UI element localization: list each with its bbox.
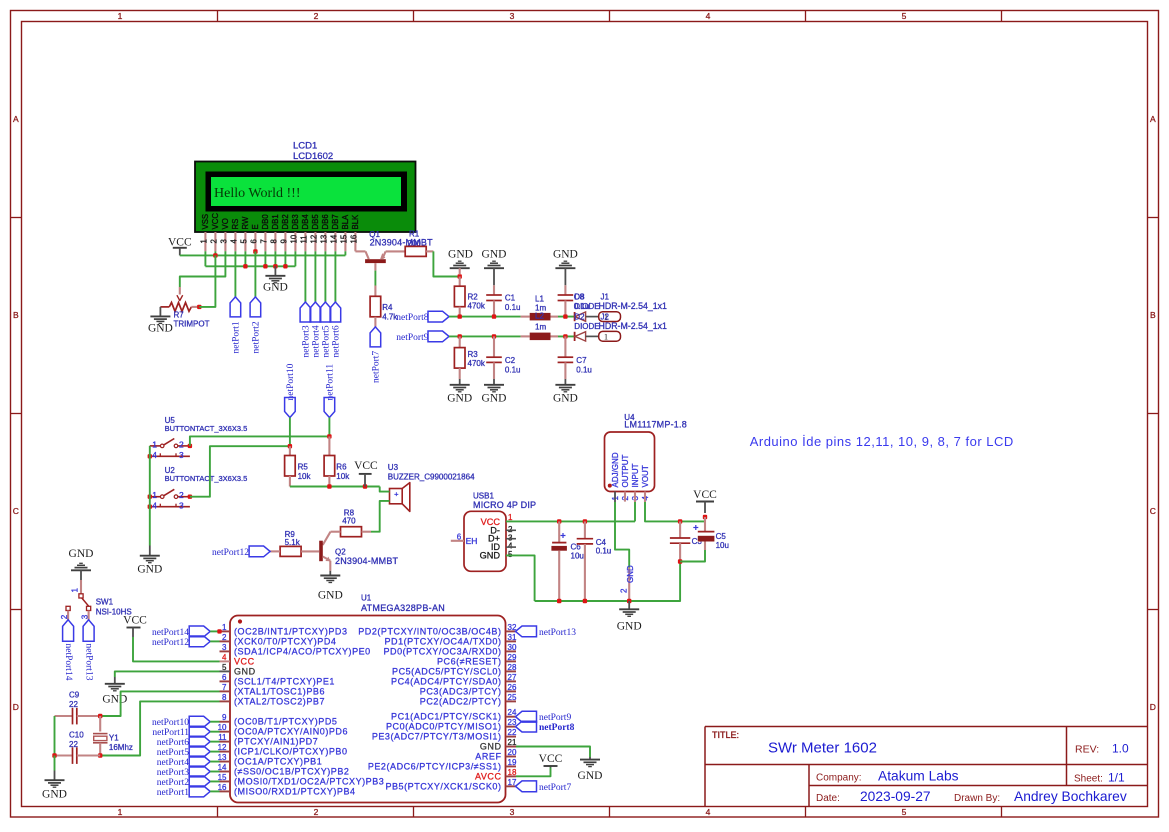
svg-text:3: 3: [222, 643, 227, 652]
U1 pin 31: [506, 640, 517, 642]
svg-text:L1: L1: [535, 295, 544, 304]
svg-text:GND: GND: [553, 249, 578, 261]
svg-text:5: 5: [240, 239, 249, 244]
svg-text:9: 9: [222, 713, 227, 722]
svg-text:3: 3: [220, 239, 229, 243]
svg-text:2: 2: [222, 633, 227, 642]
U1 pin 2: [220, 640, 231, 642]
wire buttons left to GND: [149, 446, 151, 546]
svg-text:AVCC: AVCC: [475, 771, 502, 781]
svg-text:13: 13: [320, 235, 329, 244]
svg-text:VO: VO: [221, 218, 230, 229]
ground under buttons: [140, 555, 160, 557]
svg-text:PE2(ADC6/PTCY/ICP3/≠SS1): PE2(ADC6/PTCY/ICP3/≠SS1): [368, 761, 502, 771]
U1 pin 11: [220, 741, 231, 743]
diode D8: [574, 312, 576, 321]
svg-text:VCC: VCC: [693, 489, 717, 501]
U1 pin 24: [506, 716, 517, 718]
svg-text:4: 4: [222, 653, 227, 662]
svg-text:19: 19: [508, 758, 517, 767]
svg-text:(MOSI0/TXD1/OC2A/PTCXY)PB3: (MOSI0/TXD1/OC2A/PTCXY)PB3: [234, 776, 384, 786]
wire VCC line A: [180, 254, 346, 256]
svg-text:U3: U3: [388, 463, 399, 472]
wire R1 to GND junction: [433, 251, 459, 276]
U1 pin 13: [220, 761, 231, 763]
junction pin2/VCC: [213, 253, 217, 257]
svg-text:DIODE: DIODE: [574, 302, 599, 311]
svg-text:VCC: VCC: [168, 236, 192, 248]
svg-text:Andrey Bochkarev: Andrey Bochkarev: [1014, 789, 1127, 804]
svg-text:6: 6: [222, 673, 227, 682]
capacitor C5 10u: [704, 517, 706, 532]
svg-text:GND: GND: [448, 249, 473, 261]
svg-text:netPort10: netPort10: [152, 718, 189, 728]
svg-text:(MISO0/RXD1/PTCXY)PB4: (MISO0/RXD1/PTCXY)PB4: [234, 786, 356, 796]
svg-text:3: 3: [510, 11, 515, 21]
svg-text:GND: GND: [102, 694, 127, 706]
svg-text:GND: GND: [69, 548, 94, 560]
svg-text:6: 6: [250, 239, 259, 243]
svg-text:(XTAL1/TOSC1)PB6: (XTAL1/TOSC1)PB6: [234, 686, 325, 696]
capacitor C6 10u: [557, 519, 561, 523]
svg-text:0.1u: 0.1u: [505, 303, 521, 312]
svg-text:DB7: DB7: [331, 214, 340, 229]
svg-text:LM1117MP-1.8: LM1117MP-1.8: [624, 420, 687, 430]
svg-text:VSS: VSS: [201, 214, 210, 230]
trimpot R7: [169, 303, 191, 312]
wire VCC to U1 pin4: [133, 637, 220, 661]
svg-text:3: 3: [80, 614, 89, 619]
VCC flag top-left: [173, 247, 187, 249]
U4 pin3 stub: [634, 492, 636, 503]
U1 pin 32: [506, 630, 517, 632]
wire pin4 RS to netPort1: [234, 251, 236, 297]
svg-text:GND: GND: [137, 564, 162, 576]
ground right of U1: [580, 759, 600, 761]
svg-text:netPort5: netPort5: [322, 325, 332, 357]
U1 pin 18: [506, 775, 517, 777]
U1 pin 23: [506, 726, 517, 728]
svg-text:TITLE:: TITLE:: [712, 730, 739, 740]
svg-text:B: B: [1150, 310, 1156, 320]
wire XTAL2 U1 pin8: [100, 701, 219, 755]
svg-text:R3: R3: [468, 350, 479, 359]
svg-text:netPort12: netPort12: [152, 638, 189, 648]
svg-text:netPort14: netPort14: [152, 628, 189, 638]
svg-text:Arduino İde pins 12,11, 10, 9,: Arduino İde pins 12,11, 10, 9, 8, 7 for …: [750, 434, 1014, 449]
svg-text:HDR-M-2.54_1x1: HDR-M-2.54_1x1: [599, 301, 668, 311]
svg-text:PC6(≠RESET): PC6(≠RESET): [437, 656, 502, 666]
svg-text:PD2(PTCXY/INT0/OC3B/OC4B): PD2(PTCXY/INT0/OC3B/OC4B): [358, 626, 501, 636]
svg-text:9: 9: [280, 239, 289, 243]
U1 pin 1: [220, 630, 231, 632]
wire USB1 pin5 GND: [506, 555, 535, 601]
wire netPort8 line: [449, 316, 521, 318]
svg-text:2: 2: [314, 11, 319, 21]
LCD pin 16 BLK: [354, 232, 356, 251]
svg-text:GND: GND: [447, 393, 472, 405]
U4 pin4 stub: [644, 492, 646, 503]
svg-text:21: 21: [508, 738, 517, 747]
svg-text:Y1: Y1: [109, 734, 119, 743]
svg-text:netPort2: netPort2: [157, 778, 189, 788]
wire pin3 VO to trimpot wiper: [180, 251, 226, 287]
U1 pin 28: [506, 670, 517, 672]
svg-text:(≠SS0/OC1B/PTCXY)PB2: (≠SS0/OC1B/PTCXY)PB2: [234, 767, 349, 777]
junction R2 top: [458, 274, 462, 278]
svg-text:netPort11: netPort11: [326, 364, 336, 401]
U1 pin 5: [220, 670, 231, 672]
svg-text:C5: C5: [716, 532, 727, 541]
ground under C7: [555, 384, 575, 386]
svg-text:470k: 470k: [468, 302, 486, 311]
svg-text:MICRO 4P DIP: MICRO 4P DIP: [473, 500, 536, 510]
svg-text:1: 1: [152, 439, 157, 449]
resistor R6 10k: [328, 436, 330, 455]
svg-text:C: C: [13, 506, 19, 516]
netPort1: [230, 297, 241, 317]
LCD pin 1 VSS: [204, 232, 206, 251]
netPort9 at U1 pin24: [516, 711, 537, 722]
svg-text:TRIMPOT: TRIMPOT: [174, 320, 210, 329]
capacitor C7 0.1u: [564, 336, 566, 357]
svg-text:4: 4: [152, 500, 157, 510]
LCD pin 8 DB1: [274, 232, 276, 251]
svg-text:Hello World !!!: Hello World !!!: [214, 186, 300, 201]
svg-text:netPort8: netPort8: [539, 723, 575, 733]
svg-text:GND: GND: [480, 742, 502, 752]
svg-text:3: 3: [179, 450, 184, 460]
svg-text:PC0(ADC0/PTCY/MISO1): PC0(ADC0/PTCY/MISO1): [386, 722, 502, 732]
svg-text:netPort9: netPort9: [396, 333, 428, 343]
svg-text:R1: R1: [409, 230, 420, 239]
wire U2 pin2 up-right: [190, 446, 290, 497]
svg-text:PC3(ADC3/PTCY): PC3(ADC3/PTCY): [420, 686, 502, 696]
ground under C2: [484, 384, 504, 386]
svg-text:BLA: BLA: [341, 214, 350, 230]
netPort8 at U1 pin23: [516, 721, 537, 732]
netPort13 at U1 pin32: [516, 626, 537, 637]
svg-text:GND: GND: [42, 789, 67, 801]
svg-text:VCC: VCC: [123, 615, 147, 627]
U1 pin 26: [506, 690, 517, 692]
wire netPort9 line: [449, 335, 521, 337]
svg-text:(SDA1/ICP4/ACO/PTCXY)PE0: (SDA1/ICP4/ACO/PTCXY)PE0: [234, 646, 371, 656]
svg-text:25: 25: [508, 693, 517, 702]
wire U4 pin4 to VCC-out line: [645, 502, 705, 521]
wire R7 to VCC net: [199, 255, 215, 307]
U4 pin1 stub: [614, 492, 616, 503]
U1 pin 29: [506, 660, 517, 662]
svg-text:netPort7: netPort7: [539, 783, 571, 793]
svg-text:PB5(PTCXY/XCK1/SCK0): PB5(PTCXY/XCK1/SCK0): [385, 781, 501, 791]
LCD pin 6 E: [254, 232, 256, 251]
ground R7: [159, 307, 161, 317]
svg-text:DB6: DB6: [321, 214, 330, 229]
svg-text:(PTCXY/AIN1)PD7: (PTCXY/AIN1)PD7: [234, 737, 318, 747]
svg-text:SW1: SW1: [96, 598, 114, 607]
svg-text:(OC2B/INT1/PTCXY)PD3: (OC2B/INT1/PTCXY)PD3: [234, 626, 348, 636]
svg-text:18: 18: [508, 768, 517, 777]
svg-text:Atakum Labs: Atakum Labs: [878, 769, 959, 784]
LCD pin 9 DB2: [284, 232, 286, 251]
svg-text:(XTAL2/TOSC2)PB7: (XTAL2/TOSC2)PB7: [234, 696, 325, 706]
svg-text:10k: 10k: [298, 472, 312, 481]
svg-text:5: 5: [902, 11, 907, 21]
wire U5 pin2 up-right: [190, 436, 330, 446]
netPort5: [320, 302, 331, 322]
U1 pin 15: [220, 780, 231, 782]
wire Q1 base to R4: [374, 271, 376, 286]
svg-text:A: A: [1150, 114, 1156, 124]
svg-text:R4: R4: [382, 303, 393, 312]
LCD pin 3 VO: [224, 232, 226, 251]
svg-text:8: 8: [270, 239, 279, 243]
svg-text:4: 4: [706, 807, 711, 817]
wire GND to U1 pin5: [115, 671, 220, 677]
svg-text:2: 2: [210, 239, 219, 243]
svg-text:AREF: AREF: [475, 752, 501, 762]
ground under LCD: [274, 266, 276, 276]
svg-text:INPUT: INPUT: [631, 463, 640, 487]
ground left of U1: [105, 683, 125, 685]
svg-text:netPort13: netPort13: [539, 628, 576, 638]
switch SW1 NSI-10HS: [80, 580, 82, 594]
transistor Q2 2N3904-MMBT: [323, 532, 331, 545]
svg-text:(OC1A/PTCXY)PB1: (OC1A/PTCXY)PB1: [234, 757, 322, 767]
U1 pin 12: [220, 751, 231, 753]
svg-text:11: 11: [300, 235, 309, 243]
LCD pin 2 VCC: [214, 232, 216, 251]
svg-text:11: 11: [218, 733, 227, 742]
svg-text:10u: 10u: [571, 552, 584, 561]
svg-text:(SCL1/T4/PTCXY)PE1: (SCL1/T4/PTCXY)PE1: [234, 676, 335, 686]
svg-text:netPort4: netPort4: [312, 325, 322, 357]
svg-text:EH: EH: [466, 536, 478, 546]
svg-text:(ICP1/CLKO/PTCXY)PB0: (ICP1/CLKO/PTCXY)PB0: [234, 747, 348, 757]
wire GND line B: [204, 251, 206, 266]
svg-text:VCC: VCC: [211, 213, 220, 230]
svg-text:BUTTONTACT_3X6X3.5: BUTTONTACT_3X6X3.5: [165, 474, 248, 483]
svg-text:netPort2: netPort2: [252, 321, 262, 353]
svg-text:D: D: [13, 702, 19, 712]
U1 pin 25: [506, 700, 517, 702]
svg-text:netPort1: netPort1: [157, 788, 189, 798]
svg-text:RS: RS: [231, 219, 240, 230]
svg-text:1: 1: [222, 623, 227, 632]
svg-text:D: D: [1150, 702, 1156, 712]
wire U1 pin21 GND: [516, 747, 590, 758]
netPort7 (vertical): [370, 327, 381, 347]
svg-text:4: 4: [706, 11, 711, 21]
svg-text:7: 7: [260, 239, 269, 243]
LCD pin 14 DB7: [334, 232, 336, 251]
svg-text:GND: GND: [626, 565, 635, 583]
svg-text:HDR-M-2.54_1x1: HDR-M-2.54_1x1: [599, 321, 668, 331]
LCD pin 7 DB0: [264, 232, 266, 251]
svg-text:4: 4: [230, 239, 239, 244]
svg-text:1.0: 1.0: [1112, 742, 1129, 756]
LCD pin 15 BLA: [344, 232, 346, 251]
svg-text:(OC0B/T1/PTCXY)PD5: (OC0B/T1/PTCXY)PD5: [234, 717, 337, 727]
svg-text:BUTTONTACT_3X6X3.5: BUTTONTACT_3X6X3.5: [165, 424, 248, 433]
wire caps left side: [54, 716, 56, 756]
svg-text:R2: R2: [468, 293, 479, 302]
U1 pin 30: [506, 650, 517, 652]
svg-text:PC5(ADC5/PTCY/SCL0): PC5(ADC5/PTCY/SCL0): [392, 666, 501, 676]
svg-text:28: 28: [508, 663, 517, 672]
U1 pin 8: [220, 700, 231, 702]
U1 pin 22: [506, 736, 517, 738]
svg-text:netPort14: netPort14: [63, 644, 73, 681]
U1 pin 4: [220, 660, 231, 662]
svg-text:5: 5: [902, 807, 907, 817]
svg-text:GND: GND: [482, 249, 507, 261]
svg-text:RW: RW: [241, 216, 250, 229]
svg-text:C7: C7: [576, 356, 587, 365]
svg-text:2: 2: [179, 439, 184, 449]
USB1 pin6 EH: [451, 540, 464, 542]
svg-text:R6: R6: [336, 463, 347, 472]
svg-text:netPort6: netPort6: [332, 325, 342, 357]
svg-text:DB3: DB3: [291, 214, 300, 229]
svg-text:1: 1: [200, 239, 209, 243]
svg-text:ADJ/GND: ADJ/GND: [611, 452, 620, 487]
svg-text:SWr Meter 1602: SWr Meter 1602: [768, 740, 877, 757]
wire pin16 BLK to Q1: [354, 250, 356, 252]
U1 pin 19: [506, 765, 517, 767]
svg-text:14: 14: [330, 234, 339, 243]
ground under U4: [619, 608, 639, 610]
resistor R2 470k: [459, 277, 461, 287]
ground bottom-left: [45, 779, 65, 781]
wire bottom GND bus: [535, 562, 681, 602]
svg-text:PC2(ADC2/PTCY): PC2(ADC2/PTCY): [420, 696, 502, 706]
svg-text:netPort12: netPort12: [212, 548, 249, 558]
svg-text:12: 12: [310, 235, 319, 244]
svg-text:22: 22: [69, 700, 78, 709]
svg-text:DB0: DB0: [261, 214, 270, 230]
svg-text:2023-09-27: 2023-09-27: [860, 789, 931, 804]
junction netPort10/R5: [288, 444, 292, 448]
svg-text:29: 29: [508, 653, 517, 662]
netPort13 (under SW1): [83, 620, 94, 642]
svg-text:0.1u: 0.1u: [505, 365, 521, 374]
svg-text:VCC: VCC: [354, 460, 378, 472]
svg-text:1/1: 1/1: [1108, 771, 1125, 785]
title block: [705, 726, 1148, 728]
svg-text:C: C: [1150, 506, 1156, 516]
U4 pin2 stub: [624, 492, 626, 502]
svg-text:R7: R7: [174, 311, 185, 320]
svg-text:netPort5: netPort5: [157, 748, 189, 758]
svg-text:(XCK0/T0/PTCXY)PD4: (XCK0/T0/PTCXY)PD4: [234, 636, 336, 646]
svg-text:R5: R5: [298, 463, 309, 472]
svg-text:0.1u: 0.1u: [576, 365, 592, 374]
wire U4 pin1 ADJ/GND down: [615, 502, 629, 568]
svg-text:(OC0A/PTCXY/AIN0)PD6: (OC0A/PTCXY/AIN0)PD6: [234, 727, 348, 737]
svg-text:C2: C2: [505, 356, 516, 365]
U1 pin 10: [220, 731, 231, 733]
svg-text:U1: U1: [361, 594, 372, 603]
U1 pin 3: [220, 650, 231, 652]
svg-text:GND: GND: [482, 393, 507, 405]
svg-text:netPort10: netPort10: [286, 363, 296, 400]
svg-text:PD1(PTCXY/OC4A/TXD0): PD1(PTCXY/OC4A/TXD0): [384, 636, 501, 646]
USB1 pin stubs 2-4: [506, 529, 516, 531]
crystal Y1 16Mhz: [99, 716, 101, 732]
svg-text:1: 1: [152, 490, 157, 500]
svg-text:2: 2: [619, 588, 628, 593]
svg-text:470: 470: [342, 517, 356, 526]
junctions on GND line: [243, 264, 247, 268]
svg-text:REV:: REV:: [1075, 744, 1099, 756]
svg-text:8: 8: [222, 693, 227, 702]
svg-text:Drawn By:: Drawn By:: [954, 793, 1000, 804]
svg-text:GND: GND: [234, 666, 256, 676]
svg-text:PE3(ADC7/PTCY/T3/MOSI1): PE3(ADC7/PTCY/T3/MOSI1): [372, 732, 502, 742]
svg-text:15: 15: [340, 234, 349, 243]
wire U4 pin3 to VCC-in line: [634, 502, 636, 521]
svg-text:+: +: [394, 490, 399, 499]
svg-text:VOUT: VOUT: [641, 465, 650, 487]
svg-text:netPort3: netPort3: [157, 768, 189, 778]
U1 pin 14: [220, 771, 231, 773]
svg-text:E: E: [251, 224, 260, 229]
capacitor C1 0.1u: [493, 285, 495, 295]
svg-text:VCC: VCC: [234, 656, 255, 666]
wire pin6 E to netPort2: [254, 252, 256, 297]
U1 pin 7: [220, 690, 231, 692]
capacitor C8 (hidden label): [564, 285, 566, 295]
resistor R5 10k: [289, 446, 291, 455]
svg-text:27: 27: [508, 673, 517, 682]
svg-text:C9: C9: [69, 691, 80, 700]
svg-text:6: 6: [457, 533, 462, 542]
svg-text:16: 16: [350, 235, 359, 244]
netPort7 at U1 pin17: [516, 781, 537, 792]
wire XTAL1 U1 pin7: [100, 691, 219, 716]
U1 pin 16: [220, 790, 231, 792]
svg-text:4: 4: [152, 450, 157, 460]
svg-text:26: 26: [508, 683, 517, 692]
svg-text:0.1u: 0.1u: [596, 547, 612, 556]
svg-text:C10: C10: [69, 731, 84, 740]
svg-text:netPort8: netPort8: [396, 313, 428, 323]
capacitor C3: [678, 519, 682, 523]
U1 pin 21: [506, 746, 517, 748]
svg-text:C1: C1: [505, 294, 516, 303]
svg-text:DB1: DB1: [271, 214, 280, 229]
svg-text:BLK: BLK: [351, 214, 360, 230]
junction C8/diode: [563, 314, 567, 318]
svg-text:30: 30: [508, 643, 517, 652]
netPort14 (under SW1): [63, 620, 74, 642]
U1 pin 9: [220, 721, 231, 723]
svg-text:netPort9: netPort9: [539, 713, 571, 723]
svg-text:netPort6: netPort6: [157, 738, 189, 748]
svg-text:B: B: [13, 310, 19, 320]
svg-text:BUZZER_C9900021864: BUZZER_C9900021864: [388, 473, 475, 482]
svg-text:GND: GND: [318, 590, 343, 602]
svg-text:OUTPUT: OUTPUT: [621, 455, 630, 488]
svg-text:10k: 10k: [336, 472, 350, 481]
svg-text:10u: 10u: [716, 541, 729, 550]
svg-text:DB5: DB5: [311, 214, 320, 230]
svg-text:PC1(ADC1/PTCY/SCK1): PC1(ADC1/PTCY/SCK1): [391, 712, 501, 722]
svg-text:Company:: Company:: [816, 773, 862, 784]
svg-text:20: 20: [508, 748, 517, 757]
